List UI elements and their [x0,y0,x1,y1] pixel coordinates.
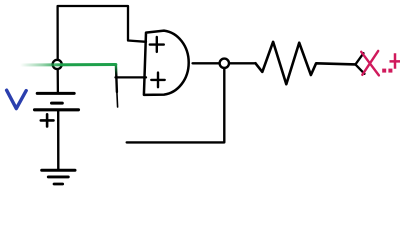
node A: input junction circle [53,60,62,69]
wire: input node to battery top [57,68,60,93]
terminal hook (black open-end mark) [355,53,364,74]
label + (crimson, right edge) [390,53,400,69]
terminal X marker (crimson) [361,51,379,76]
green highlighted wire (drawn over node, source to gate input corner) [20,63,116,67]
ground [42,170,75,184]
battery plus label [41,114,54,126]
wire: gate bottom input [116,76,147,78]
wire: green corner descending stub (fades green to black, tapering) [116,65,117,92]
op-amp U1: summing gate (AND-shape body) [144,31,189,95]
wire: output node to resistor [229,62,255,64]
battery V1 bottom plate [35,108,79,111]
node B: output junction circle [220,59,229,68]
battery minus label [52,102,63,105]
wire: gate output to output node [193,62,220,64]
feedback wire: output node down and left [127,68,225,142]
plus sign: gate top input [150,37,164,52]
wire: battery to ground [57,110,59,170]
label dots ".." (crimson) [382,69,392,73]
plus sign: gate bottom input [151,73,164,88]
label V (blue) [7,90,27,108]
resistor R1 zigzag [256,42,356,84]
battery V1 top plate [37,92,74,95]
wire: top feedforward loop from input node to gate top input [58,6,146,60]
